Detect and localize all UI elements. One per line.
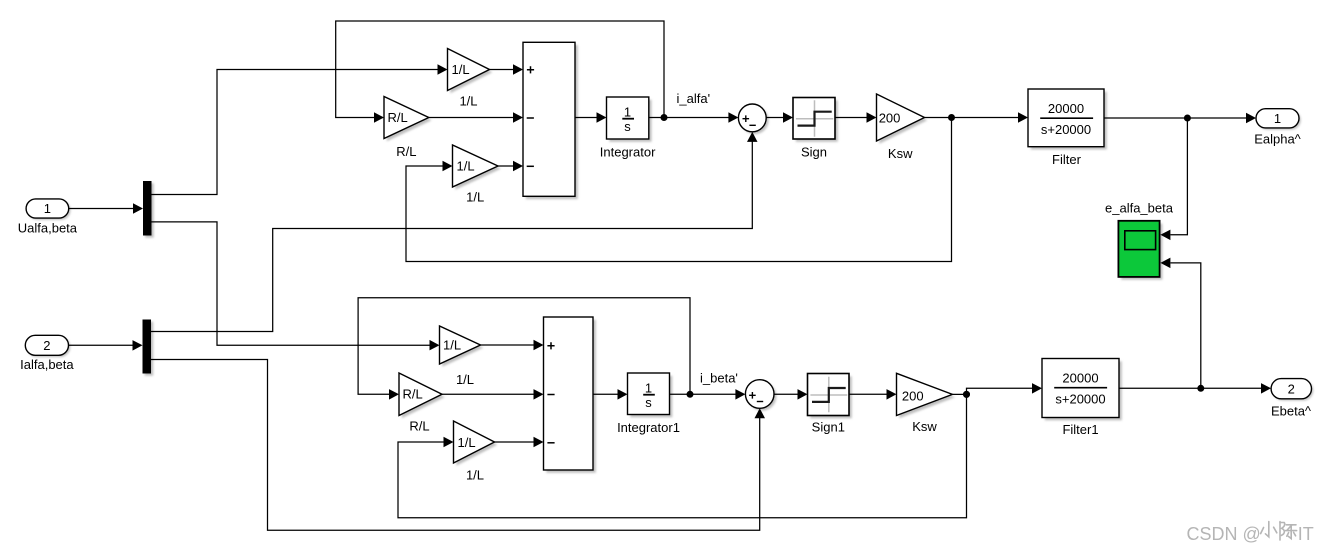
svg-text:i_beta': i_beta' [700,370,738,385]
svg-text:R/L: R/L [409,418,429,433]
svg-text:IT: IT [1298,524,1314,544]
svg-text:Ualfa,beta: Ualfa,beta [18,221,78,236]
svg-text:Ealpha^: Ealpha^ [1254,132,1301,147]
svg-text:e_alfa_beta: e_alfa_beta [1105,201,1174,216]
svg-text:1: 1 [44,201,51,216]
svg-text:Ialfa,beta: Ialfa,beta [20,357,74,372]
svg-text:1/L: 1/L [459,94,477,109]
svg-text:Ksw: Ksw [888,146,913,161]
svg-text:1/L: 1/L [458,435,476,450]
svg-text:s+20000: s+20000 [1055,392,1105,407]
svg-text:200: 200 [879,111,901,126]
svg-text:Integrator1: Integrator1 [617,420,680,435]
svg-text:20000: 20000 [1062,371,1098,386]
svg-text:R/L: R/L [403,387,423,402]
svg-text:Sign: Sign [801,145,827,160]
svg-text:200: 200 [902,388,924,403]
svg-text:1/L: 1/L [466,467,484,482]
svg-text:s: s [645,395,652,410]
svg-text:Sign1: Sign1 [812,420,845,435]
svg-text:i_alfa': i_alfa' [677,91,711,106]
svg-text:Filter: Filter [1052,152,1082,167]
svg-text:1/L: 1/L [443,337,461,352]
svg-text:1: 1 [624,104,631,119]
svg-text:1/L: 1/L [466,190,484,205]
svg-text:1/L: 1/L [452,62,470,77]
svg-text:2: 2 [1288,381,1295,396]
svg-text:1/L: 1/L [456,372,474,387]
svg-text:Ksw: Ksw [912,419,937,434]
svg-text:1: 1 [645,380,652,395]
svg-text:20000: 20000 [1048,101,1084,116]
svg-text:R/L: R/L [388,110,408,125]
svg-text:2: 2 [43,338,50,353]
svg-text:1/L: 1/L [457,159,475,174]
svg-text:1: 1 [1274,111,1281,126]
svg-text:R/L: R/L [396,144,416,159]
svg-text:Filter1: Filter1 [1062,422,1098,437]
svg-text:s+20000: s+20000 [1041,122,1091,137]
svg-text:CSDN @: CSDN @ [1187,524,1261,544]
svg-text:Ebeta^: Ebeta^ [1271,403,1312,418]
svg-text:s: s [624,119,631,134]
svg-text:Integrator: Integrator [600,144,656,159]
